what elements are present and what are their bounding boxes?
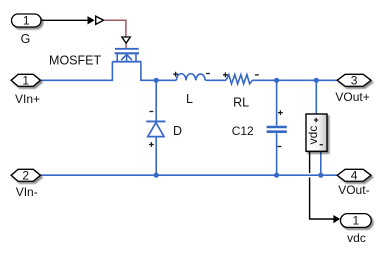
svg-text:VIn-: VIn- [16, 185, 38, 199]
svg-text:vdc: vdc [347, 231, 366, 245]
svg-text:1: 1 [353, 214, 360, 228]
svg-text:3: 3 [351, 74, 358, 88]
svg-text:1: 1 [23, 14, 30, 28]
svg-text:VOut+: VOut+ [335, 90, 369, 104]
svg-text:RL: RL [233, 96, 249, 110]
svg-text:1: 1 [22, 74, 29, 88]
svg-text:MOSFET: MOSFET [49, 53, 101, 67]
svg-text:VOut-: VOut- [338, 183, 369, 197]
svg-text:D: D [173, 124, 182, 138]
svg-text:VIn+: VIn+ [15, 92, 40, 106]
svg-text:4: 4 [351, 169, 358, 183]
svg-text:L: L [186, 92, 193, 106]
svg-text:C12: C12 [232, 124, 254, 138]
svg-text:vdc: vdc [306, 126, 320, 145]
svg-text:G: G [21, 32, 31, 46]
svg-text:2: 2 [22, 169, 29, 183]
